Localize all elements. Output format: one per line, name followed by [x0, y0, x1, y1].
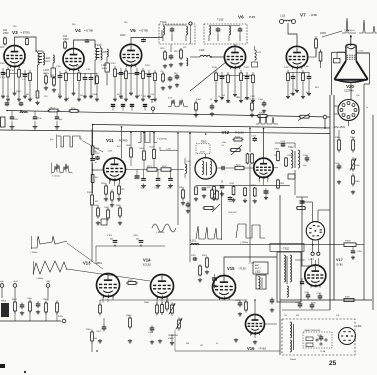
svg-text:C324: C324 — [317, 335, 321, 337]
svg-text:R332: R332 — [280, 183, 285, 185]
wire V16 up — [254, 300, 256, 315]
wire V4 plate to T103 — [74, 40, 96, 49]
pot arrow y208 — [212, 204, 220, 212]
wire y246 sync — [96, 245, 165, 247]
terminal x325 — [323, 115, 327, 119]
svg-text:C305: C305 — [133, 235, 139, 237]
resistor R332 — [277, 179, 279, 180]
V6 capacitor 2 — [221, 72, 223, 77]
resistors x212 x217 top — [211, 189, 213, 191]
leader from square wave to V11 grid — [82, 141, 103, 153]
grounds bottom left — [21, 311, 23, 313]
tube V12 — [254, 158, 273, 177]
svg-text:L302: L302 — [255, 271, 261, 274]
capacitor C114 in T104 — [171, 27, 173, 29]
svg-text:1k5: 1k5 — [6, 96, 9, 98]
socket stub wires — [334, 105, 338, 107]
coil L105b below bus A — [20, 112, 27, 113]
V7 capacitor 5 — [308, 72, 310, 77]
svg-text:V3: V3 — [12, 30, 18, 35]
V6 resistor 7 — [252, 72, 254, 75]
wire kinescope to socket — [350, 84, 352, 100]
svg-text:V6: V6 — [238, 15, 244, 20]
wires components to y321 — [14, 311, 16, 321]
coil L108 in T104 — [186, 26, 188, 35]
svg-text:T.1,6A: T.1,6A — [320, 350, 326, 353]
capacitor C314 — [338, 164, 340, 167]
waveform pulses above kinescope — [342, 18, 356, 33]
svg-text:R11: R11 — [143, 96, 146, 98]
tube V3 — [4, 46, 25, 67]
terminal above R304 — [352, 131, 355, 134]
resistors R226 R225 on x250 — [247, 153, 249, 154]
V12 pin wires down — [258, 175, 260, 182]
junction dots on buses — [92, 124, 94, 126]
V11 cathode resistors below — [105, 184, 107, 187]
vertical rail x373 — [372, 115, 374, 310]
svg-text:300mA: 300mA — [290, 358, 296, 361]
svg-text:245V: 245V — [3, 32, 9, 35]
kinescope g2 lead right with 4.7k — [356, 52, 369, 54]
kinescope neck hatch rows — [347, 54, 348, 56]
wire V11 plate up to bus B — [121, 127, 123, 159]
wire T202 down — [294, 170, 296, 195]
V4 stage wire — [60, 73, 97, 75]
tube V16 — [246, 315, 265, 334]
V4 capacitor 6 — [90, 73, 92, 78]
sync cluster y205-228 — [97, 206, 99, 209]
svg-text:V4: V4 — [75, 28, 81, 33]
components between V13 V14 — [126, 282, 128, 284]
svg-text:R154: R154 — [50, 108, 55, 110]
components under V6 row2 — [195, 101, 197, 104]
svg-text:T302: T302 — [283, 247, 289, 251]
kinescope V20 neck — [345, 45, 347, 61]
svg-text:R242: R242 — [162, 166, 167, 168]
svg-text:C119: C119 — [160, 48, 164, 50]
V3 stage wire — [3, 73, 30, 75]
svg-text:C105: C105 — [14, 119, 19, 121]
vertical rail x364 — [369, 53, 371, 84]
flyback T302 windings — [277, 252, 301, 302]
components around V16 — [239, 301, 241, 304]
svg-text:L105: L105 — [102, 51, 108, 54]
bold capacitor C311 — [214, 274, 216, 278]
svg-text:220V: 220V — [58, 316, 64, 318]
wire x175 down — [171, 334, 173, 341]
capacitor C217b on y168 — [221, 166, 223, 170]
resistor R331 — [277, 151, 279, 152]
capacitor C310 — [193, 258, 195, 260]
bold caps C212 C213 — [265, 188, 267, 191]
components right rail cluster — [182, 188, 184, 191]
resistor R221 on y170 — [146, 169, 148, 171]
wire y351 bottom — [175, 350, 280, 352]
resistor R212 on x154 — [153, 149, 155, 151]
tube V15 — [213, 276, 236, 299]
wire V15 plate up to flyback — [224, 257, 277, 276]
V7 capacitor 2 — [292, 72, 294, 77]
svg-text:C303: C303 — [107, 235, 113, 237]
capacitor C408 — [221, 180, 223, 183]
horizontal resistor y208 — [203, 207, 205, 209]
svg-text:L112: L112 — [257, 52, 261, 54]
V7 resistor 1 — [287, 70, 289, 73]
svg-text:R205: R205 — [120, 189, 125, 191]
svg-text:+61V: +61V — [108, 151, 113, 153]
svg-text:R306: R306 — [95, 148, 100, 150]
resistor R220 top — [91, 193, 93, 196]
resistor R206 on x131 — [130, 147, 132, 149]
V6 resistor 1 — [215, 70, 217, 73]
svg-text:7.MA(b)LU: 7.MA(b)LU — [344, 29, 355, 32]
svg-text:LINEARITA: LINEARITA — [168, 334, 178, 337]
svg-text:162V: 162V — [120, 34, 126, 37]
svg-text:ECL82: ECL82 — [143, 263, 151, 267]
svg-text:R44: R44 — [186, 343, 189, 345]
svg-text:25: 25 — [329, 360, 337, 367]
svg-text:R220: R220 — [94, 205, 99, 207]
coil L111 in T105 — [229, 26, 231, 35]
svg-text:R216: R216 — [179, 187, 184, 189]
svg-text:GY80: GY80 — [336, 263, 343, 267]
svg-text:20V+150V: 20V+150V — [334, 126, 346, 129]
grounds V16 — [235, 338, 237, 340]
V3 capacitor 1 — [2, 68, 4, 73]
svg-text:R317: R317 — [207, 187, 212, 189]
svg-text:100%: 100% — [102, 68, 108, 70]
svg-text:ANT.: ANT. — [255, 264, 260, 267]
bottom wire y321 — [0, 320, 61, 322]
svg-text:- PL83: - PL83 — [247, 15, 256, 19]
V4 capacitor 1 — [59, 71, 61, 76]
terminal on bus A — [151, 107, 154, 110]
scan dot 2 — [96, 350, 98, 352]
V6 ground 4 — [234, 69, 236, 94]
svg-text:V15: V15 — [227, 266, 235, 271]
V16 pin wires — [250, 331, 252, 336]
svg-text:5p: 5p — [95, 162, 97, 164]
svg-text:(~50Hz): (~50Hz) — [36, 278, 44, 280]
V3 resistor 2 — [7, 67, 9, 70]
svg-text:C307: C307 — [96, 331, 102, 333]
waveform flyback 2 — [236, 224, 265, 238]
wire T303 top — [205, 154, 207, 158]
coil L302 box — [256, 275, 266, 289]
wire T105 to V6 plate — [234, 44, 236, 46]
capacitor C201 left of V11 — [97, 156, 99, 157]
wire bottom terminals to bus — [14, 298, 16, 300]
V6 resistor 3 — [227, 72, 229, 75]
wire V3 plate to T102 — [15, 37, 37, 52]
wire T202 top — [294, 143, 296, 148]
waveform inverted square x56 — [56, 135, 58, 149]
svg-text:R318: R318 — [202, 255, 207, 257]
vertical wire x92 down — [91, 130, 93, 194]
svg-text:(~15kHz): (~15kHz) — [240, 242, 249, 244]
waveform axis bracket x159 — [160, 147, 178, 151]
components on V3 plate wire — [26, 38, 28, 39]
svg-text:- PY81: - PY81 — [258, 347, 266, 351]
components below wire y185 — [195, 186, 197, 188]
components right of flyback — [307, 293, 309, 296]
V5 capacitor 5 — [136, 68, 138, 73]
T102 resistor lower — [37, 90, 39, 92]
resistor R262 on bus A right — [257, 115, 259, 117]
discriminator transformer T303 can — [195, 158, 216, 179]
svg-text:2-10 V: 2-10 V — [308, 259, 315, 261]
contact circles in cambiotensione — [316, 339, 318, 341]
V7 resistor 4 — [302, 70, 304, 73]
svg-text:L104: L104 — [44, 69, 50, 72]
svg-text:C32: C32 — [284, 315, 287, 317]
resistor R306 — [338, 138, 340, 141]
diagonal pointer to V14 — [67, 269, 150, 281]
antenna box — [253, 262, 268, 274]
scan dot — [24, 371, 26, 373]
bold cap left of V17 — [301, 278, 303, 282]
svg-text:(~15625Hz): (~15625Hz) — [157, 139, 167, 141]
svg-text:T102: T102 — [36, 49, 43, 53]
deflection yoke socket — [306, 222, 324, 240]
waveform noise burst x168 — [168, 100, 188, 107]
svg-text:3n3: 3n3 — [120, 98, 123, 100]
V5 resistor 3 — [125, 68, 127, 71]
power transformer coils — [290, 322, 292, 338]
inner dashed box cambiotensione — [303, 332, 332, 348]
caps on y310 — [299, 302, 301, 305]
V3 resistor 4 — [18, 67, 20, 70]
svg-text:a 4.7k: a 4.7k — [358, 51, 365, 53]
svg-text:R204: R204 — [101, 183, 106, 185]
resistor R318 v — [206, 257, 208, 259]
svg-text:100%: 100% — [45, 61, 51, 63]
svg-text:C108: C108 — [37, 118, 42, 120]
grounds under V11 — [105, 197, 107, 199]
svg-text:(15k) 1kV: (15k) 1kV — [228, 212, 237, 214]
tube V4 — [63, 49, 84, 70]
V4 resistor 4 — [78, 70, 80, 73]
capacitor on V5 plate wire — [143, 39, 145, 40]
wire V12 plate up — [263, 129, 265, 159]
horizontal bus wire A — [7, 111, 330, 118]
svg-text:(~v.504.4): (~v.504.4) — [52, 176, 60, 178]
coil L206 — [185, 164, 187, 174]
svg-text:0,5: 0,5 — [216, 343, 219, 345]
kinescope V20 anode wire — [350, 35, 352, 46]
svg-text:10k: 10k — [95, 177, 98, 179]
svg-text:V20: V20 — [346, 84, 354, 89]
svg-text:L300: L300 — [356, 325, 362, 328]
V4 resistor 7 — [96, 73, 98, 76]
svg-text:C40: C40 — [356, 95, 359, 97]
caps above bus A — [6, 102, 8, 104]
V3 capacitor 5 — [24, 70, 26, 75]
yoke terminals — [311, 252, 314, 255]
pot R310 — [352, 158, 354, 161]
wire inside T104 — [163, 24, 186, 26]
wires in T105 — [208, 36, 210, 42]
horizontal bus wire B — [93, 125, 330, 129]
wire flyback to V17 — [301, 265, 315, 267]
resistor R228 — [254, 187, 256, 188]
svg-text:- PCF80: - PCF80 — [117, 139, 128, 143]
tube V11 — [104, 158, 126, 180]
wire V16 right to flyback — [265, 323, 278, 325]
T102 left leg wire down — [37, 65, 39, 91]
svg-text:T105: T105 — [217, 18, 224, 22]
svg-text:L113: L113 — [280, 15, 286, 18]
pots vertical hold — [171, 303, 173, 306]
svg-text:V17: V17 — [336, 258, 343, 262]
power supply dashed box — [282, 319, 355, 355]
svg-text:0,1: 0,1 — [222, 145, 225, 147]
svg-text:R118: R118 — [174, 51, 178, 53]
wire L109 left — [190, 56, 200, 58]
svg-text:C16: C16 — [160, 71, 163, 73]
svg-text:R232: R232 — [230, 183, 235, 185]
V5 capacitor 7 — [148, 70, 150, 75]
svg-text:R221: R221 — [147, 166, 152, 168]
coil L107 in T104 — [163, 26, 165, 35]
antenna stub into V3 — [0, 46, 4, 48]
bold cap-ground marks on bus A right — [112, 105, 114, 111]
diagonal pointer to V13 — [67, 243, 103, 269]
tube V17 — [305, 265, 326, 286]
vertical sync feed x92 — [92, 125, 94, 147]
V5 stage wire — [115, 73, 155, 75]
wire V7 plate right — [308, 51, 316, 58]
svg-text:245V: 245V — [63, 38, 69, 41]
svg-text:R330: R330 — [288, 155, 293, 157]
waveform right of V12 label — [256, 115, 278, 124]
V6 capacitor 6 — [246, 72, 248, 77]
wire L109 to V6 — [211, 56, 224, 58]
T303 dashed box — [196, 144, 210, 154]
svg-text:+152V: +152V — [248, 263, 255, 265]
cluster right of T104 x162-188 — [170, 44, 172, 52]
left column components x46-56 — [45, 76, 47, 86]
resistor R301 — [91, 330, 93, 333]
svg-text:V.MAX: V.MAX — [168, 337, 174, 340]
svg-text:L103: L103 — [45, 57, 51, 60]
terminal at T104 — [189, 22, 192, 25]
test point above terminal — [151, 100, 153, 104]
svg-text:L-204: L-204 — [166, 149, 171, 151]
resistor above V3 — [4, 37, 6, 39]
waveform square pulses above V11 — [138, 132, 157, 143]
svg-text:T303: T303 — [201, 140, 207, 144]
wire V12 right — [273, 167, 278, 169]
svg-text:(0V): (0V) — [50, 139, 54, 141]
svg-text:V13: V13 — [83, 261, 91, 266]
svg-text:V5: V5 — [130, 28, 136, 33]
svg-text:R206: R206 — [126, 145, 131, 147]
V4 ground 3 — [73, 70, 75, 92]
resistor R227 on y168 — [234, 167, 236, 169]
wire T303 to V12 grid y168 — [216, 167, 253, 169]
svg-text:1k: 1k — [210, 99, 212, 101]
resistor above V4 — [64, 41, 66, 43]
svg-text:= ET80: = ET80 — [139, 29, 149, 33]
svg-text:R13: R13 — [315, 87, 318, 89]
tube V6 — [224, 46, 245, 67]
waveform flyback 1 — [196, 226, 222, 239]
kinescope grid lead left — [337, 51, 346, 53]
svg-text:R210: R210 — [140, 148, 145, 150]
svg-text:- PL36: - PL36 — [238, 267, 246, 271]
vertical wire x250 lower — [249, 164, 251, 262]
V7 plate load resistors — [315, 37, 317, 40]
wire R326 right — [356, 244, 364, 246]
vertical wire x221 — [220, 190, 222, 240]
small box left edge — [1, 117, 6, 127]
svg-text:- LF80: - LF80 — [309, 13, 318, 17]
caps below bus A with bold grounds — [11, 111, 13, 117]
svg-text:OSP: OSP — [46, 281, 51, 283]
svg-text:al contrasto: al contrasto — [244, 98, 256, 101]
tube V13 — [97, 274, 120, 297]
wire y300 right — [280, 299, 372, 301]
V11 pins down — [109, 178, 111, 184]
svg-text:5p6: 5p6 — [59, 119, 62, 121]
V5 ground 4 — [130, 66, 132, 92]
svg-text:12k: 12k — [90, 96, 93, 98]
wire y300 V15 — [196, 299, 246, 301]
wire V7 to mod diagonal — [322, 31, 342, 37]
V6 stage wire — [216, 75, 253, 77]
svg-text:5k6: 5k6 — [66, 98, 69, 100]
svg-text:R228: R228 — [251, 185, 256, 187]
capacitor C123 in T105 — [239, 27, 241, 29]
wire V11 anode row y170 — [126, 169, 185, 171]
svg-text:(~50Hz): (~50Hz) — [30, 252, 38, 254]
V5 resistor 8 — [154, 70, 156, 73]
tube V7 — [286, 46, 307, 67]
horizontal wire y245 right — [190, 244, 344, 246]
svg-text:4M: 4M — [94, 338, 97, 340]
wire y310 right — [282, 309, 330, 311]
wires yoke socket down to terminals — [312, 240, 314, 253]
svg-text:- EB91: - EB91 — [94, 261, 102, 265]
meter M300 — [1, 303, 9, 317]
svg-text:V11: V11 — [106, 138, 114, 143]
svg-text:L109: L109 — [199, 49, 205, 52]
capacitor C207 box — [288, 174, 295, 179]
capacitor C209c — [229, 197, 231, 198]
svg-text:R212: R212 — [150, 147, 155, 149]
pot R224 with arrow — [230, 149, 232, 151]
coil L110 in T105 — [209, 26, 211, 35]
V4 resistor 2 — [65, 70, 67, 73]
grounds V13 V14 stage — [99, 339, 101, 341]
svg-text:L301: L301 — [191, 240, 197, 243]
capacitor C122 in T105 — [217, 27, 219, 29]
svg-text:V16: V16 — [247, 346, 255, 351]
svg-text:M300: M300 — [1, 301, 7, 303]
wire y300 V13 V14 — [100, 299, 196, 301]
svg-text:C204: C204 — [155, 188, 159, 190]
wire inside T105 — [209, 25, 240, 27]
svg-text:L10: L10 — [183, 47, 186, 49]
wire x92 to V11 grid — [93, 169, 104, 171]
resistor R330 — [285, 157, 287, 158]
resistor R309b — [244, 187, 246, 188]
V13 below components — [107, 299, 109, 302]
V5 resistor 6 — [142, 68, 144, 71]
diagonal annotation line to contrast — [190, 62, 226, 91]
V7 stage wire — [288, 72, 309, 74]
